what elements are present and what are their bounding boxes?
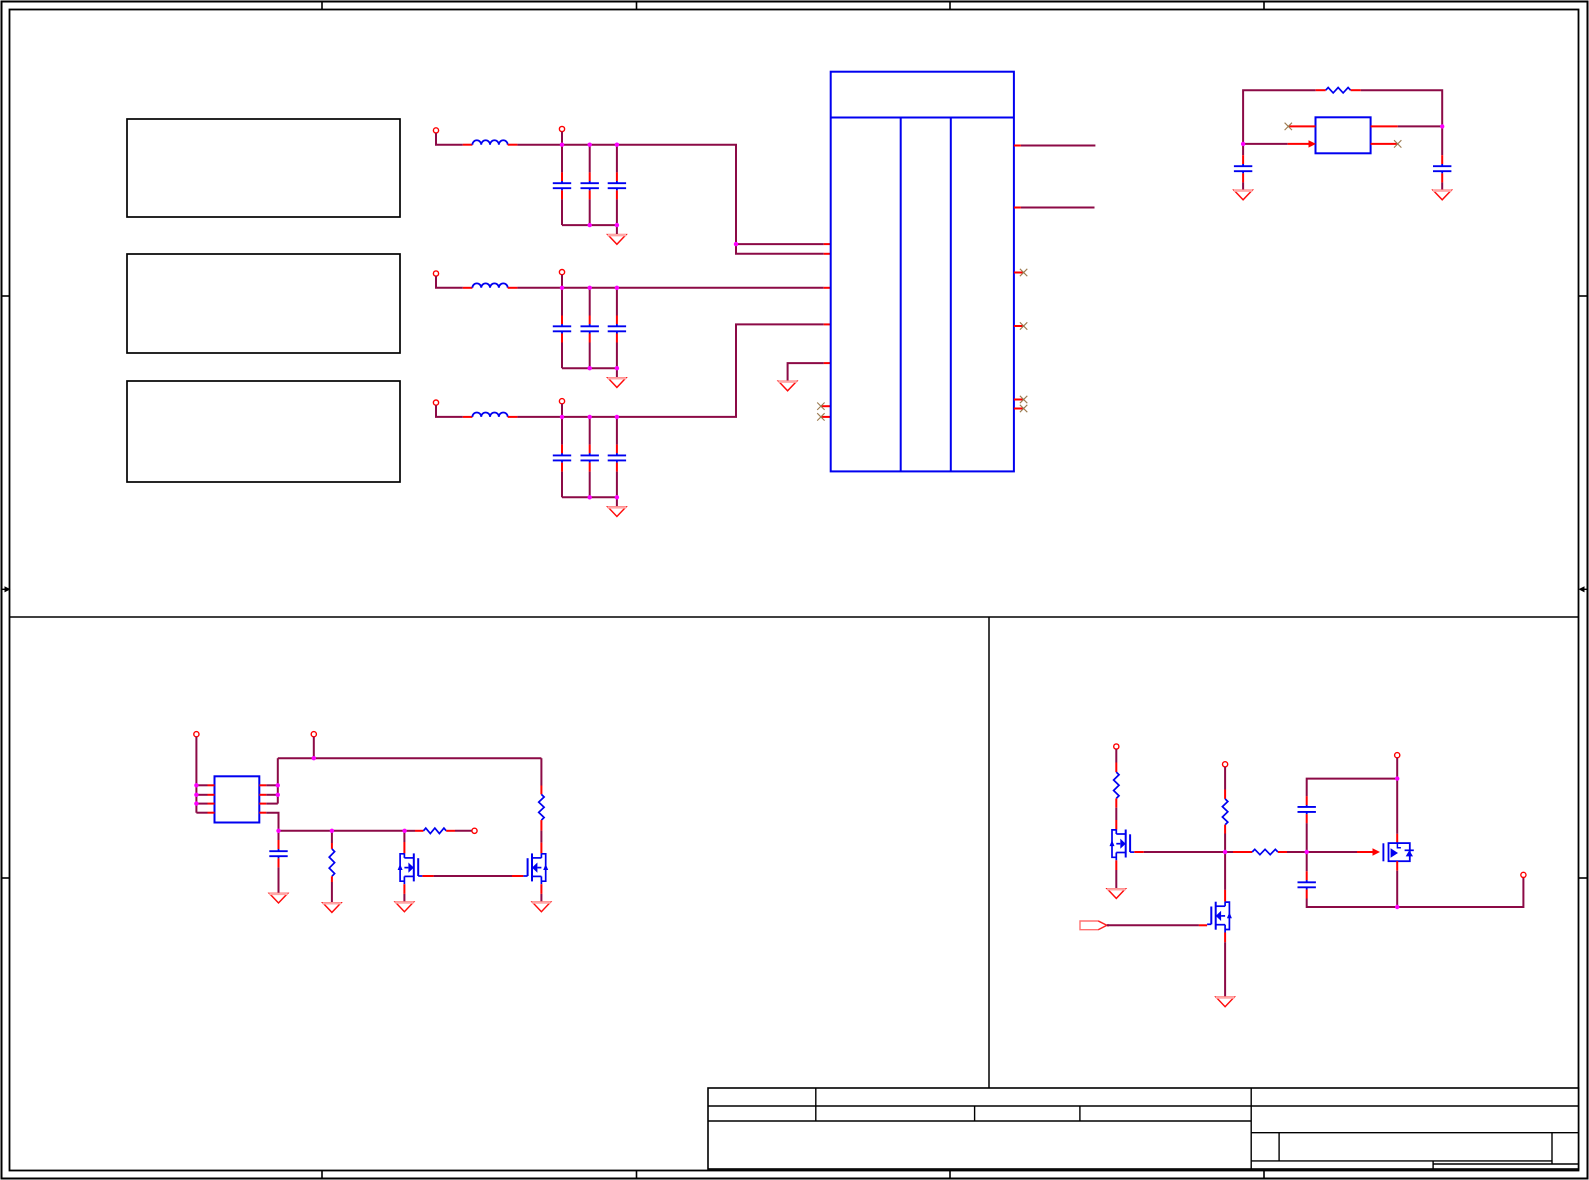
transistor Q1 drain wire (403, 831, 405, 854)
capacitor C4 (1234, 144, 1252, 190)
ground bus filter 1 (562, 224, 617, 226)
transistor Q2 (523, 853, 548, 884)
wire to ground filter 2 (616, 368, 618, 378)
wire U1 gnd pin (788, 363, 831, 381)
ground U1 (778, 381, 796, 391)
inductor L1 (463, 140, 518, 144)
resistor R3 horizontal (405, 828, 472, 833)
wire Q1 gate to Q2 gate (422, 875, 523, 877)
wire J1b stub (561, 132, 563, 145)
wire inductor L3 to node (517, 416, 562, 418)
off-page flag PORT1 (1080, 921, 1109, 930)
node rail 3 segment (562, 416, 617, 418)
wire J9 to Q4 drain (1396, 758, 1398, 843)
no-connect U1 right nc4 (1014, 405, 1027, 412)
node A junction (734, 242, 738, 246)
capacitor C8 (1298, 852, 1398, 907)
border zone ticks top (322, 2, 1264, 10)
junction dots rail 1 (560, 143, 619, 147)
ground bus dots filter 2 (588, 366, 620, 370)
inductor L2 (463, 283, 518, 287)
connector pin J8 (1223, 762, 1228, 767)
note box 2 (127, 254, 400, 353)
ground C4 (1234, 190, 1252, 200)
transistor Q5 source wire (1224, 933, 1226, 998)
crystal Y1 body (1316, 117, 1371, 153)
wire J3b stub (561, 404, 563, 417)
U2 right pin 1 (259, 784, 278, 786)
inductor L3 (463, 412, 518, 416)
node D junction (312, 756, 316, 760)
node rail 2 segment (562, 287, 617, 289)
IC U1 body (831, 72, 1014, 472)
junction dots gate bus (276, 829, 407, 833)
capacitor C6 (269, 831, 287, 894)
capacitor C3a (553, 417, 571, 497)
node C junction (1440, 124, 1444, 128)
resistor R4 vertical (539, 794, 544, 853)
capacitor C3c (608, 417, 626, 497)
border zone ticks right (1579, 296, 1588, 878)
transistor Q4 body (1383, 843, 1413, 861)
node G junction (1395, 776, 1399, 780)
resistor R5 vertical (1114, 772, 1119, 829)
note box 3 (127, 381, 400, 482)
node H junction (1395, 905, 1399, 909)
wire filter1 output (617, 145, 736, 244)
no-connect Y1 pin2 (1371, 140, 1402, 147)
wire node A to U1 pin1 (736, 243, 831, 245)
ground filter 2 (608, 378, 626, 388)
no-connect U1 right nc2 (1014, 322, 1027, 329)
ground C5 (1433, 190, 1451, 200)
wire J4 down (195, 737, 197, 813)
U2 left pin 4 (196, 812, 214, 814)
connector pin J3a (433, 400, 438, 405)
U2 right pin 2 (259, 794, 278, 796)
connector pin J9 (1395, 753, 1400, 758)
wire J2a to inductor (436, 276, 463, 288)
wire J8 to R6 (1224, 767, 1226, 799)
sheet partition line horizontal (10, 616, 1579, 618)
no-connect U1 left pin nc1 (817, 403, 831, 410)
wire J7 to R5 (1115, 749, 1117, 772)
no-connect U1 right nc1 (1014, 269, 1027, 276)
ground Q2 (532, 902, 550, 912)
no-connect U1 left pin nc2 (817, 413, 831, 420)
connector pin J6 (472, 828, 477, 833)
ground filter 3 (608, 507, 626, 517)
title block (708, 1088, 1579, 1169)
capacitor C5 (1433, 126, 1451, 190)
ground C6 (269, 893, 287, 903)
wire inductor L2 to node (517, 287, 562, 289)
connector pin J7 (1114, 744, 1119, 749)
transistor Q1 source wire (403, 884, 405, 902)
resistor R6 vertical (1222, 799, 1227, 852)
wire inductor L1 to node (517, 144, 562, 146)
resistor R1 crystal (1316, 88, 1361, 93)
wire VCC rail bottom-left (278, 757, 542, 759)
wire U1 right pin1 (1014, 145, 1096, 147)
node E junction (1223, 850, 1227, 854)
connector pin J1b (559, 126, 564, 131)
wire U1 right pin2 (1014, 207, 1095, 209)
U2 right pin 3 (259, 803, 278, 805)
transistor Q5 drain wire (1224, 852, 1226, 902)
transistor Q5 (1207, 902, 1232, 933)
U2 left pin 3 (196, 803, 214, 805)
wire Q3 gate to node E (1134, 851, 1225, 853)
wire J1a to inductor (436, 133, 463, 145)
border centre arrow right (1579, 586, 1588, 592)
wire J5 stub (313, 737, 315, 758)
capacitor C2b (581, 288, 599, 368)
capacitor C1b (581, 145, 599, 225)
connector pin J5 (311, 732, 316, 737)
wire node A to U1 pin2 (736, 244, 831, 254)
wire gate bus bottom-left (279, 830, 405, 832)
junction dots rail 3 (560, 415, 619, 419)
capacitor C2a (553, 288, 571, 368)
node rail 1 segment (562, 144, 617, 146)
ground bus dots filter 1 (588, 223, 620, 227)
wire crystal top rail right (1361, 90, 1442, 126)
U2 left pin 2 (196, 794, 214, 796)
connector pin J2b (559, 270, 564, 275)
wire J3a to inductor (436, 405, 463, 417)
capacitor C3b (581, 417, 599, 497)
no-connect Y1 pin (1285, 123, 1316, 130)
note box 1 (127, 119, 400, 217)
connector pin J2a (433, 271, 438, 276)
ground bus dots filter 3 (588, 495, 620, 499)
wire to ground filter 3 (616, 497, 618, 507)
capacitor C1c (608, 145, 626, 225)
ground bus filter 3 (562, 496, 617, 498)
junction dots U2 left (194, 783, 198, 806)
border centre arrow left (2, 586, 11, 592)
resistor R2 vertical (329, 831, 334, 903)
wire node B to Y1 with arrow (1243, 140, 1316, 147)
wire PORT1 to Q5 gate (1107, 924, 1207, 926)
wire J2b stub (561, 275, 563, 288)
transistor Q3 source wire (1115, 860, 1117, 888)
transistor Q1 (398, 853, 423, 884)
wire U2 right bus (277, 758, 279, 803)
resistor R7 horizontal (1225, 849, 1307, 854)
ground filter 1 (608, 235, 626, 245)
sheet partition line vertical (988, 617, 990, 1088)
U2 right pin 4 (259, 813, 278, 831)
transistor Q3 (1110, 830, 1135, 861)
transistor Q2 source wire (540, 884, 542, 902)
wire node H to J10 (1397, 878, 1523, 908)
IC U2 body (215, 776, 260, 822)
wire filter2 output to U1 pin3 (617, 287, 831, 289)
connector pin J4 (194, 732, 199, 737)
ground Q3 (1107, 889, 1125, 899)
U2 left pin 1 (196, 784, 214, 786)
ground bus filter 2 (562, 367, 617, 369)
border zone ticks left (2, 296, 10, 878)
node F junction (1305, 850, 1309, 854)
wire Y1 to node C (1371, 125, 1443, 127)
wire to ground filter 1 (616, 225, 618, 235)
wire filter3 output to U1 pin4 (617, 324, 831, 417)
border zone ticks bottom (322, 1171, 1264, 1179)
node B junction (1241, 142, 1245, 146)
junction dots rail 2 (560, 286, 619, 290)
capacitor C7 (1298, 779, 1398, 852)
capacitor C2c (608, 288, 626, 368)
connector pin J3b (559, 399, 564, 404)
wire VCC to R4 (540, 758, 542, 794)
ground Q1 (395, 902, 413, 912)
no-connect U1 right nc3 (1014, 396, 1027, 403)
capacitor C1a (553, 145, 571, 225)
transistor Q4 source wire (1396, 861, 1398, 907)
connector pin J1a (433, 128, 438, 133)
ground Q5 (1216, 997, 1234, 1007)
wire crystal top rail (1243, 90, 1316, 144)
connector pin J10 (1521, 872, 1526, 877)
junction dots U2 right (276, 783, 280, 797)
ground R2 (323, 903, 341, 913)
wire node F to Q4 gate (1307, 848, 1380, 855)
